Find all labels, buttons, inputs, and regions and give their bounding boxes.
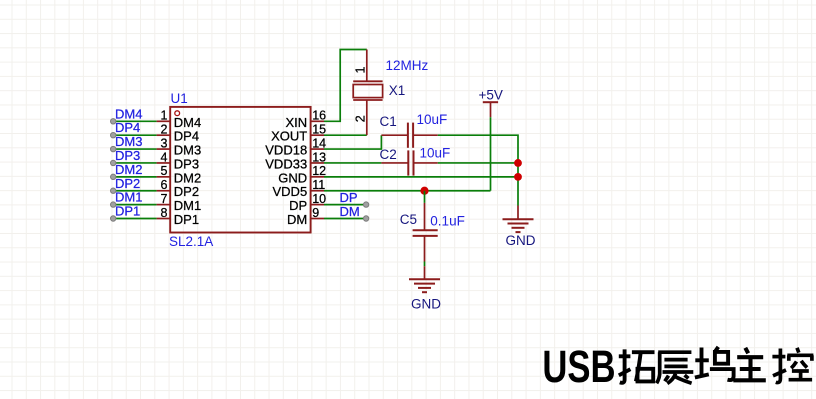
wire VDD33 [324, 162, 381, 164]
svg-text:GND: GND [411, 297, 441, 312]
title hanzi zhan 展 [657, 352, 694, 383]
svg-text:GND: GND [506, 233, 536, 248]
title hanzi tuo 拓 [619, 349, 655, 382]
svg-text:DP2: DP2 [115, 176, 140, 191]
node DM3 end dot [111, 146, 116, 151]
svg-text:8: 8 [161, 206, 168, 220]
wire +5V to VDD5 row [490, 117, 492, 191]
svg-text:DP1: DP1 [174, 212, 199, 227]
node DM4 end dot [111, 119, 116, 124]
svg-text:4: 4 [161, 150, 168, 164]
ground symbol left [409, 266, 440, 292]
capacitor C5 [413, 203, 438, 262]
wire pin3 left [113, 148, 156, 150]
svg-text:DP4: DP4 [115, 120, 140, 135]
svg-text:XOUT: XOUT [271, 129, 307, 144]
junction right column lower [514, 173, 522, 181]
svg-text:9: 9 [312, 206, 319, 220]
svg-text:VDD33: VDD33 [265, 157, 307, 172]
svg-text:DM: DM [340, 204, 360, 219]
svg-text:7: 7 [161, 192, 168, 206]
node DP end dot [363, 202, 368, 207]
svg-text:C5: C5 [400, 212, 417, 227]
svg-text:5: 5 [161, 164, 168, 178]
power +5V symbol [483, 102, 498, 117]
wire pin6 left [113, 190, 156, 192]
svg-text:DM2: DM2 [115, 162, 142, 177]
svg-text:1: 1 [161, 109, 168, 123]
U1 pin numbers right 16-9 [312, 109, 326, 220]
svg-text:DM4: DM4 [174, 115, 201, 130]
U1 pin names left [174, 115, 201, 227]
svg-text:DM3: DM3 [174, 143, 201, 158]
node DP1 end dot [111, 216, 116, 221]
crystal X1 [353, 50, 382, 136]
svg-text:C1: C1 [380, 114, 397, 129]
svg-text:DP4: DP4 [174, 129, 199, 144]
svg-text:VDD5: VDD5 [273, 184, 308, 199]
svg-text:DP3: DP3 [115, 148, 140, 163]
svg-text:2: 2 [354, 115, 368, 122]
U1 pin numbers left 1-8 [161, 109, 168, 220]
svg-text:0.1uF: 0.1uF [430, 214, 465, 229]
node DP3 end dot [111, 160, 116, 165]
svg-text:DM4: DM4 [115, 106, 142, 121]
op-amp U1 body [170, 107, 310, 233]
svg-text:DM3: DM3 [115, 134, 142, 149]
title hanzi wu 坞 [695, 347, 734, 380]
junction right column upper [514, 159, 522, 167]
wire DM pin9 [324, 218, 366, 220]
svg-text:DM2: DM2 [174, 170, 201, 185]
svg-text:U1: U1 [171, 91, 188, 106]
wire C1 to right column [438, 135, 518, 205]
svg-text:11: 11 [312, 178, 325, 192]
title hanzi kong 控 [772, 348, 813, 383]
svg-text:3: 3 [161, 136, 168, 150]
U1 pin names right [265, 115, 307, 227]
svg-text:X1: X1 [389, 83, 406, 98]
svg-text:12MHz: 12MHz [386, 58, 429, 73]
svg-text:6: 6 [161, 178, 168, 192]
wire pin2 left [113, 134, 156, 136]
capacitor C1 [381, 123, 437, 148]
node DP2 end dot [111, 188, 116, 193]
svg-text:DM: DM [287, 212, 307, 227]
U1 pin stubs left [157, 121, 171, 218]
svg-text:XIN: XIN [286, 115, 308, 130]
svg-text:2: 2 [161, 123, 168, 137]
wire pin8 left [113, 218, 156, 220]
capacitor C2 [381, 150, 437, 175]
ground symbol right [503, 206, 534, 233]
wire XOUT to crystal [324, 134, 367, 136]
node DM2 end dot [111, 174, 116, 179]
svg-text:DM1: DM1 [174, 198, 201, 213]
wire pin1 left [113, 120, 156, 122]
svg-text:SL2.1A: SL2.1A [169, 234, 213, 249]
wire pin5 left [113, 176, 156, 178]
svg-text:DM1: DM1 [115, 190, 142, 205]
svg-text:VDD18: VDD18 [265, 143, 307, 158]
svg-text:DP2: DP2 [174, 184, 199, 199]
wire VDD5 row pin11 [324, 190, 491, 192]
svg-text:10uF: 10uF [420, 146, 451, 161]
svg-text:DP3: DP3 [174, 157, 199, 172]
wire C5 top [424, 191, 426, 203]
svg-text:DP: DP [289, 198, 307, 213]
svg-text:C2: C2 [380, 147, 397, 162]
svg-text:DP1: DP1 [115, 204, 140, 219]
wire XIN to crystal [324, 50, 367, 122]
svg-text:1: 1 [354, 67, 368, 74]
svg-text:10uF: 10uF [417, 112, 448, 127]
U1 pin stubs right [311, 121, 324, 218]
wire VDD18 [324, 135, 381, 149]
svg-text:+5V: +5V [479, 88, 503, 103]
title hanzi zhu 主 [733, 348, 766, 381]
wire DP pin10 [324, 204, 366, 206]
svg-text:GND: GND [278, 170, 307, 185]
wire C5 to GND [424, 262, 426, 267]
wire C2 to right column [438, 162, 518, 164]
node DP4 end dot [111, 132, 116, 137]
wire pin7 left [113, 204, 156, 206]
junction VDD5/C5 [420, 187, 428, 195]
node DM1 end dot [111, 202, 116, 207]
svg-text:DP: DP [340, 190, 358, 205]
svg-text:USB: USB [542, 340, 615, 392]
wire GND row pin12 [324, 176, 518, 178]
node DM end dot [363, 216, 368, 221]
wire pin4 left [113, 162, 156, 164]
